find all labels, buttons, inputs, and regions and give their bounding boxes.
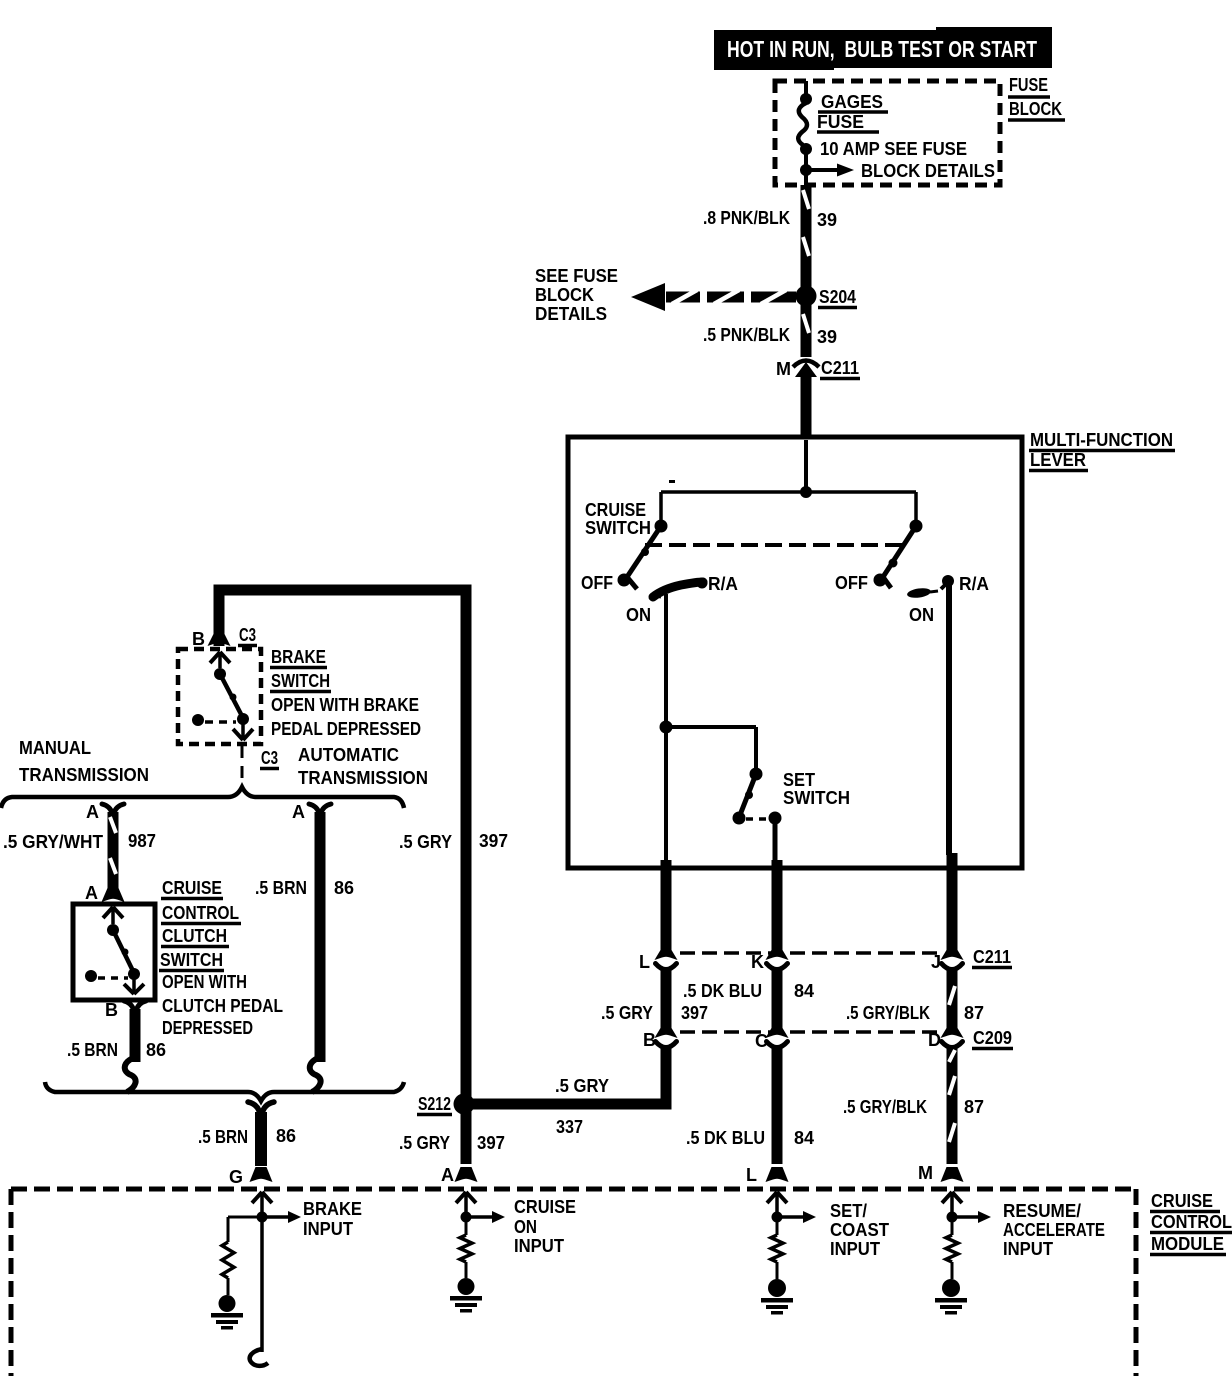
svg-text:R/A: R/A [708, 574, 738, 594]
svg-text:MULTI-FUNCTION: MULTI-FUNCTION [1030, 430, 1173, 450]
connector joined brace output [248, 1102, 274, 1114]
label MANUAL TRANSMISSION [19, 738, 149, 785]
svg-text:10 AMP SEE FUSE: 10 AMP SEE FUSE [820, 139, 967, 159]
svg-text:INPUT: INPUT [830, 1239, 880, 1259]
node bottom of gages fuse [800, 143, 812, 155]
value label GAGES FUSE [817, 92, 888, 132]
fuse block dashed box [775, 81, 1000, 185]
svg-text:BRAKE: BRAKE [303, 1199, 362, 1219]
clutch switch blade [113, 930, 133, 971]
svg-text:CRUISE: CRUISE [585, 500, 646, 520]
wire label .5 PNK/BLK 39 [703, 325, 837, 347]
connector module pin G [229, 1167, 273, 1187]
node set switch output [769, 812, 782, 825]
connector C209 pin D [928, 1028, 964, 1050]
cruise on input pin arrow [456, 1192, 476, 1214]
svg-text:TRANSMISSION: TRANSMISSION [19, 765, 149, 785]
brake switch internal arrow in [210, 652, 230, 668]
svg-text:BLOCK: BLOCK [1009, 99, 1062, 119]
dashed arrow to fuse block details [631, 283, 796, 311]
connector C211 pin M [776, 358, 860, 379]
brake input pin arrow [252, 1192, 272, 1214]
svg-text:87: 87 [964, 1097, 984, 1117]
svg-text:A: A [292, 802, 305, 822]
svg-text:OPEN WITH BRAKE: OPEN WITH BRAKE [271, 695, 419, 715]
svg-text:SEE FUSE: SEE FUSE [535, 266, 618, 286]
set coast input pin arrow [767, 1192, 787, 1214]
label SET SWITCH [783, 770, 850, 808]
svg-text:MANUAL: MANUAL [19, 738, 91, 758]
connector module pin M [918, 1163, 964, 1183]
wire label .8 PNK/BLK 39 [703, 208, 837, 230]
svg-text:ACCELERATE: ACCELERATE [1003, 1220, 1105, 1240]
svg-text:86: 86 [146, 1040, 166, 1060]
value label 10 AMP SEE FUSE BLOCK DETAILS [820, 139, 995, 181]
label CRUISE CONTROL MODULE [1150, 1191, 1232, 1255]
wire R/A to J [949, 585, 952, 950]
clutch switch contacts and dashed gap [85, 968, 140, 982]
node top of gages fuse [800, 93, 812, 105]
svg-text:K: K [751, 952, 764, 972]
wire label .5 GRY 337 [555, 1076, 609, 1137]
svg-text:39: 39 [817, 210, 837, 230]
svg-text:D: D [928, 1030, 941, 1050]
svg-text:.5 BRN: .5 BRN [198, 1127, 248, 1147]
svg-text:INPUT: INPUT [514, 1236, 564, 1256]
wire .5 BRN 86 to module G [198, 1112, 296, 1166]
resume accelerate input pin arrow [942, 1192, 962, 1214]
resistor set coast pull [771, 1222, 783, 1279]
node fuse block details tap [800, 149, 812, 185]
svg-text:C209: C209 [973, 1028, 1012, 1048]
svg-text:BLOCK DETAILS: BLOCK DETAILS [861, 161, 995, 181]
svg-text:PEDAL DEPRESSED: PEDAL DEPRESSED [271, 719, 421, 739]
wire label .5 DK BLU 84 [683, 981, 814, 1001]
wire C211 to lever box [801, 377, 812, 439]
wire label .5 GRY/WHT 987 [3, 831, 156, 852]
svg-text:FUSE: FUSE [817, 112, 864, 132]
wire hook manual to brace [125, 1057, 136, 1092]
node set switch pivot [750, 768, 763, 781]
svg-text:A: A [85, 883, 98, 903]
connector module pin L [746, 1165, 789, 1185]
resistor resume accelerate pull [946, 1222, 958, 1279]
svg-text:.5 DK BLU: .5 DK BLU [686, 1128, 765, 1148]
connector C211 pin K [751, 950, 789, 972]
splice S204 [796, 286, 858, 308]
cruise switch right blade [883, 526, 916, 588]
svg-text:84: 84 [794, 1128, 814, 1148]
svg-text:OFF: OFF [835, 573, 868, 593]
node right pole pivot [910, 520, 923, 533]
wire label .5 GRY 397 lower [399, 1133, 505, 1153]
svg-text:87: 87 [964, 1003, 984, 1023]
power source banner HOT IN RUN, BULB TEST OR START [714, 27, 1052, 70]
wire D to module M .5 GRY/BLK 87 [843, 1047, 984, 1164]
brake switch arrow out [233, 723, 253, 740]
ground set coast resistor [761, 1279, 793, 1315]
svg-text:DEPRESSED: DEPRESSED [162, 1018, 253, 1038]
svg-text:HOT IN RUN, BULB TEST OR STAR: HOT IN RUN, BULB TEST OR START [727, 36, 1037, 62]
brake switch blade [220, 674, 242, 716]
svg-text:987: 987 [128, 831, 156, 851]
arrow to block details [806, 164, 854, 177]
terminal OFF right [835, 573, 887, 593]
svg-text:SET: SET [783, 770, 815, 790]
label AUTOMATIC TRANSMISSION [298, 745, 428, 788]
arrow set coast input [777, 1201, 889, 1259]
connector A manual branch [86, 802, 124, 822]
svg-text:.5 PNK/BLK: .5 PNK/BLK [703, 325, 790, 345]
svg-text:.5 GRY: .5 GRY [601, 1003, 653, 1023]
svg-text:L: L [746, 1165, 757, 1185]
svg-text:.5 BRN: .5 BRN [67, 1040, 118, 1060]
svg-text:.5 GRY/BLK: .5 GRY/BLK [846, 1003, 930, 1023]
wire J to D .5 GRY/BLK [949, 969, 955, 1028]
svg-text:CONTROL: CONTROL [1151, 1212, 1232, 1232]
wire set switch to K [775, 822, 777, 950]
svg-text:MODULE: MODULE [1151, 1234, 1224, 1254]
set switch blade [740, 774, 756, 815]
node brake input [257, 1212, 268, 1223]
svg-text:.5 GRY/BLK: .5 GRY/BLK [843, 1097, 927, 1117]
wire label .5 BRN 86 clutch feed [255, 878, 354, 898]
terminal ON left with blade to R/A [626, 574, 738, 625]
wire K to C [772, 969, 783, 1028]
wire C to module L .5 DK BLU 84 [686, 1047, 814, 1164]
svg-text:86: 86 [334, 878, 354, 898]
svg-text:S212: S212 [418, 1094, 451, 1114]
wire .5 BRN 86 automatic [315, 812, 326, 1062]
cruise switch left blade [627, 526, 661, 589]
terminal ON right [906, 587, 938, 625]
splice S212 [417, 1094, 475, 1115]
svg-text:C3: C3 [261, 748, 278, 768]
svg-text:.5 GRY: .5 GRY [555, 1076, 609, 1096]
label CRUISE SWITCH [585, 500, 651, 538]
svg-text:397: 397 [477, 1133, 505, 1153]
connector B clutch switch [105, 1000, 146, 1020]
svg-text:397: 397 [479, 831, 508, 851]
svg-text:BLOCK: BLOCK [535, 285, 594, 305]
connector module pin A [441, 1165, 478, 1185]
node set coast input [772, 1212, 783, 1223]
svg-text:ON: ON [514, 1217, 537, 1237]
svg-text:BRAKE: BRAKE [271, 647, 326, 667]
brake switch dashed box [178, 649, 261, 744]
fuse GAGES 10 AMP element [798, 103, 807, 145]
svg-text:.5 BRN: .5 BRN [255, 878, 307, 898]
label SEE FUSE BLOCK DETAILS [535, 266, 618, 324]
brace join to module G [45, 1082, 404, 1101]
svg-text:FUSE: FUSE [1009, 75, 1048, 95]
svg-text:86: 86 [276, 1126, 296, 1146]
wire .8 PNK/BLK 39 [803, 185, 809, 292]
multi-function lever box [568, 437, 1022, 868]
wire brake sense continues [250, 1220, 268, 1366]
connector A clutch switch [85, 883, 125, 903]
svg-text:OPEN WITH: OPEN WITH [162, 972, 247, 992]
label BRAKE SWITCH OPEN WITH BRAKE PEDAL DEPRESSED [270, 647, 421, 739]
connector C209 pin B [643, 1028, 678, 1050]
node ON branch junction [660, 594, 673, 734]
svg-text:AUTOMATIC: AUTOMATIC [298, 745, 399, 765]
clutch switch arrow out [124, 977, 144, 994]
node set switch pole [733, 812, 746, 825]
svg-text:.5 GRY/WHT: .5 GRY/WHT [3, 832, 103, 852]
svg-text:A: A [86, 802, 99, 822]
connector C209 pin C [755, 1028, 789, 1051]
resistor cruise on pull [460, 1222, 472, 1278]
node left pole pivot [655, 520, 668, 533]
clutch switch internal arrow in [103, 907, 123, 924]
svg-text:CRUISE: CRUISE [1151, 1191, 1213, 1211]
svg-text:SWITCH: SWITCH [585, 518, 651, 538]
svg-text:CONTROL: CONTROL [162, 903, 239, 923]
svg-text:A: A [441, 1165, 454, 1185]
terminal OFF left [581, 573, 631, 593]
svg-text:C211: C211 [973, 947, 1011, 967]
svg-text:B: B [192, 629, 205, 649]
svg-text:S204: S204 [819, 287, 856, 307]
svg-text:DETAILS: DETAILS [535, 304, 607, 324]
wire ON pole to L [664, 731, 668, 950]
svg-text:M: M [918, 1163, 933, 1183]
svg-text:397: 397 [681, 1003, 708, 1023]
svg-text:.8 PNK/BLK: .8 PNK/BLK [703, 208, 790, 228]
connector C211 dashed row [680, 947, 1012, 968]
wire .5 GRY/WHT 987 [110, 812, 116, 888]
svg-text:B: B [643, 1030, 656, 1050]
svg-text:.5 DK BLU: .5 DK BLU [683, 981, 762, 1001]
fuse block label [1008, 75, 1065, 120]
mechanical coupling dashed link [645, 543, 903, 547]
svg-text:SET/: SET/ [830, 1201, 867, 1221]
svg-text:SWITCH: SWITCH [271, 671, 330, 691]
svg-text:TRANSMISSION: TRANSMISSION [298, 768, 428, 788]
svg-text:39: 39 [817, 327, 837, 347]
label MULTI-FUNCTION LEVER [1029, 430, 1175, 471]
wire B to S212 corner [468, 1047, 666, 1104]
svg-text:CRUISE: CRUISE [514, 1197, 576, 1217]
node feed junction [800, 486, 812, 498]
svg-text:CRUISE: CRUISE [162, 878, 222, 898]
wire into cruise switch [804, 440, 808, 490]
connector C211 pin L [639, 950, 678, 972]
dashed contact gap [746, 817, 770, 821]
resistor brake pull [222, 1217, 262, 1295]
svg-text:C3: C3 [239, 625, 256, 645]
wire L to B [661, 969, 672, 1028]
wire stub into fuse [804, 81, 808, 95]
svg-text:ON: ON [626, 605, 651, 625]
svg-text:84: 84 [794, 981, 814, 1001]
terminal R/A right [941, 574, 989, 594]
wire hook automatic to brace [310, 1057, 321, 1092]
clutch switch pivot [107, 924, 119, 936]
svg-text:SWITCH: SWITCH [160, 950, 223, 970]
ground resume accelerate resistor [935, 1279, 967, 1315]
wire .5 PNK/BLK 39 [803, 300, 809, 357]
connector C209 dashed row [680, 1028, 1013, 1049]
svg-text:.5 GRY: .5 GRY [399, 1133, 450, 1153]
node cruise on input [461, 1212, 472, 1223]
svg-text:B: B [105, 1000, 118, 1020]
svg-text:M: M [776, 359, 791, 379]
svg-text:LEVER: LEVER [1030, 450, 1086, 470]
svg-text:J: J [931, 952, 941, 972]
svg-text:C211: C211 [821, 358, 859, 378]
svg-text:GAGES: GAGES [821, 92, 883, 112]
svg-text:L: L [639, 952, 650, 972]
speck artifact [669, 480, 675, 483]
svg-text:R/A: R/A [959, 574, 989, 594]
connector C211 pin J [931, 950, 964, 972]
wire brake switch feed .5 GRY [219, 590, 466, 1164]
svg-text:.5 GRY: .5 GRY [399, 832, 452, 852]
svg-text:CLUTCH PEDAL: CLUTCH PEDAL [162, 996, 283, 1016]
wire label .5 GRY/BLK 87 [846, 1003, 984, 1023]
svg-text:CLUTCH: CLUTCH [162, 926, 227, 946]
arrow cruise on input [466, 1197, 576, 1256]
arrow brake input [262, 1199, 362, 1239]
wire left pole drop [659, 492, 663, 522]
svg-text:OFF: OFF [581, 573, 613, 593]
wire right pole drop [914, 492, 918, 522]
svg-text:INPUT: INPUT [1003, 1239, 1053, 1259]
connector C3 pin B [192, 625, 257, 649]
brake switch pivot [214, 668, 226, 680]
svg-text:G: G [229, 1167, 243, 1187]
wire label .5 GRY 397 upper [399, 831, 508, 852]
connector C3 below brake switch [242, 746, 279, 786]
wire to set switch [666, 727, 756, 770]
node resume accelerate input [947, 1212, 958, 1223]
ground cruise on resistor [450, 1278, 482, 1313]
svg-text:ON: ON [909, 605, 934, 625]
arrow resume accelerate input [952, 1201, 1105, 1259]
cruise control clutch switch box [73, 904, 155, 1000]
label CRUISE CONTROL CLUTCH SWITCH OPEN WITH CLUTCH PEDAL DEPRESSED [159, 878, 283, 1038]
brake switch contact nodes and dashed gap [192, 713, 249, 726]
wire label .5 GRY 397 [601, 1003, 708, 1023]
ground brake resistor [211, 1295, 243, 1330]
svg-text:C: C [755, 1031, 768, 1051]
svg-text:337: 337 [556, 1117, 583, 1137]
svg-text:INPUT: INPUT [303, 1219, 353, 1239]
svg-text:COAST: COAST [830, 1220, 889, 1240]
wire feed bus [661, 490, 916, 494]
cruise control module dashed box [11, 1189, 1136, 1376]
svg-text:SWITCH: SWITCH [783, 788, 850, 808]
wire clutch switch out .5 BRN 86 [67, 1009, 166, 1062]
brace transmission options [1, 787, 404, 808]
svg-text:RESUME/: RESUME/ [1003, 1201, 1081, 1221]
connector A automatic branch [292, 802, 331, 822]
